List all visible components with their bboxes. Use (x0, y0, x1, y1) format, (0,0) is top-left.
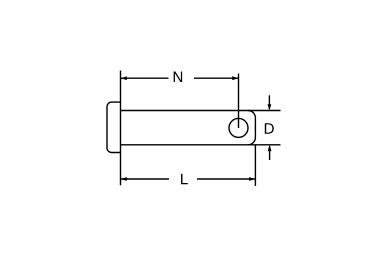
pin top edge with D extension line (121, 110, 281, 112)
arrowhead L left (121, 177, 127, 181)
pin head (107, 102, 121, 152)
right extension line N (hole centre) (238, 74, 240, 129)
arrowhead D bottom (268, 145, 272, 151)
pin rounded right end (248, 111, 255, 145)
label N (174, 72, 182, 82)
dimension line N left segment (121, 77, 169, 79)
pin bottom edge with D extension line (121, 144, 281, 146)
dimension line L right segment (197, 178, 255, 180)
left extension line (under head) (120, 71, 122, 186)
arrowhead N left (121, 76, 127, 80)
label D (265, 123, 274, 133)
dimension line L left segment (121, 178, 169, 180)
D top arrow stem (268, 95, 270, 109)
arrowhead N right (232, 76, 238, 80)
label L (181, 174, 188, 184)
arrowhead L right (249, 177, 255, 181)
right extension line L (pin end) (254, 145, 256, 186)
D bottom arrow stem (269, 147, 271, 161)
dimension line N right segment (194, 77, 238, 79)
cotter pin hole (229, 118, 248, 137)
arrowhead D top (268, 104, 272, 110)
